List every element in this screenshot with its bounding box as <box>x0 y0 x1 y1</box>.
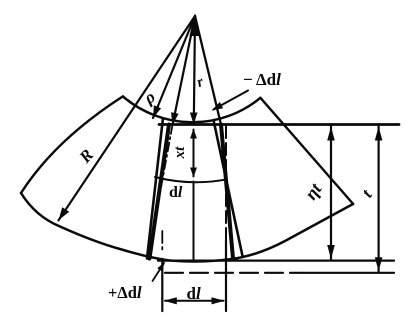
svg-text:dl: dl <box>187 284 201 303</box>
svg-text:dl: dl <box>169 184 183 201</box>
svg-text:+Δdl: +Δdl <box>108 283 142 302</box>
svg-text:Δdl: Δdl <box>256 70 281 89</box>
svg-text:xt: xt <box>172 146 188 160</box>
svg-text:−: − <box>243 70 253 89</box>
